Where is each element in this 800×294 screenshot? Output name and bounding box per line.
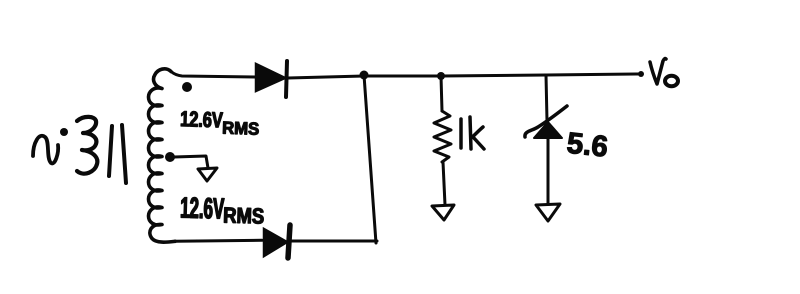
secondary bottom lead wire xyxy=(175,240,262,241)
label Vo xyxy=(650,59,678,87)
ground resistor xyxy=(432,205,454,220)
node junction A dot xyxy=(360,71,369,80)
ac source squiggle xyxy=(33,136,58,164)
top wire xyxy=(288,74,640,78)
zener D3 triangle xyxy=(534,122,562,138)
core line 2 xyxy=(122,125,126,183)
center tap wire xyxy=(174,156,208,168)
secondary winding coil xyxy=(149,69,176,242)
polarity dot xyxy=(182,82,192,92)
primary winding coil xyxy=(77,117,97,174)
label 5.6 xyxy=(567,133,606,157)
output terminal dot xyxy=(638,71,644,77)
label 12.6Vrms top xyxy=(181,111,259,135)
zener top lead xyxy=(546,75,547,121)
ground zener xyxy=(536,204,560,221)
primary dot xyxy=(60,128,68,136)
diode D1 triangle xyxy=(256,64,285,91)
label 12.6Vrms bottom xyxy=(181,197,263,223)
resistor top lead xyxy=(441,76,442,111)
wire vertical from node A to bottom xyxy=(364,75,376,243)
diode D1 cathode bar xyxy=(286,61,287,97)
zener bottom lead xyxy=(547,138,550,204)
resistor bottom lead xyxy=(443,162,445,205)
zener D3 cathode bar xyxy=(525,106,567,137)
core line 1 xyxy=(109,126,112,176)
secondary top lead wire xyxy=(171,72,255,78)
node junction B dot xyxy=(437,72,445,80)
label 1k xyxy=(461,117,484,149)
ground center tap xyxy=(198,168,217,181)
diode D2 cathode bar xyxy=(288,225,290,258)
center tap dot xyxy=(165,152,175,162)
resistor R1 zigzag xyxy=(434,111,451,162)
wire bottom diode to vertical xyxy=(291,240,377,243)
diode D2 triangle xyxy=(264,229,287,256)
